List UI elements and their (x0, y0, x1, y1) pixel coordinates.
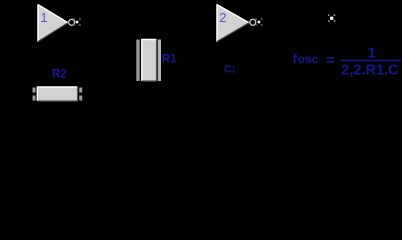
resistor R2 (horizontal) (33, 87, 83, 101)
svg-text:=: = (326, 52, 335, 69)
gate U2 output bubble (250, 19, 256, 25)
svg-text:2,2.R1.C: 2,2.R1.C (341, 62, 399, 78)
svg-text:osc: osc (298, 52, 319, 66)
svg-text:2: 2 (219, 10, 226, 25)
svg-text:1: 1 (368, 45, 376, 61)
svg-text:1: 1 (40, 10, 47, 25)
inverter gate U1 (38, 4, 68, 42)
svg-text:R1: R1 (162, 53, 177, 65)
gate U1 output bubble (69, 19, 75, 25)
node marker (floating connection point) (328, 14, 335, 21)
svg-text:1: 1 (231, 64, 236, 75)
inverter gate U2 (217, 4, 249, 42)
formula fosc = 1/(2,2.R1.C) (293, 45, 401, 78)
resistor R1 (vertical) (136, 40, 161, 82)
svg-text:R2: R2 (52, 68, 67, 80)
gate U1 output port marker (73, 18, 80, 25)
gate U2 output port marker (255, 18, 262, 25)
